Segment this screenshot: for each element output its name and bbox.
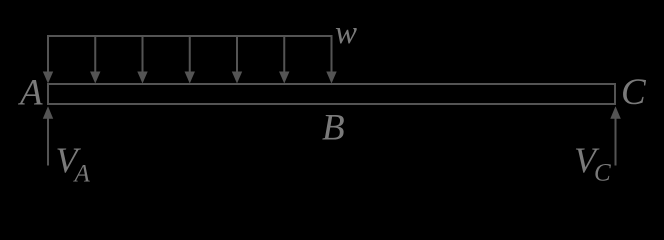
load arrow 2: [90, 35, 100, 84]
svg-text:C: C: [594, 160, 611, 187]
svg-text:C: C: [621, 72, 647, 113]
reaction arrow V_C: [610, 106, 621, 165]
reaction arrow V_A: [43, 106, 53, 165]
distributed load top line w: [47, 35, 333, 37]
load arrow 3: [137, 35, 147, 84]
svg-text:A: A: [17, 73, 43, 114]
load arrow 1: [43, 35, 53, 84]
beam AC: [48, 84, 615, 104]
load arrow 4: [185, 35, 195, 84]
load arrow 6: [279, 35, 289, 84]
svg-text:A: A: [73, 161, 91, 188]
label V_A: [56, 140, 91, 188]
svg-text:w: w: [335, 15, 357, 51]
load arrow 7: [326, 35, 336, 84]
label V_C: [574, 140, 611, 187]
load arrow 5: [232, 35, 242, 84]
svg-text:B: B: [322, 108, 345, 149]
